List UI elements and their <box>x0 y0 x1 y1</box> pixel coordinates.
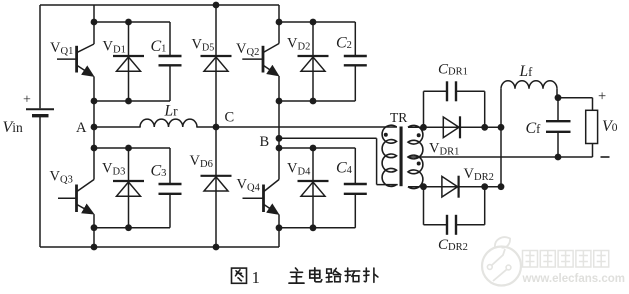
node middle leg top rail <box>213 2 220 9</box>
node cell3 top VD3 <box>125 145 132 152</box>
node cell1 top-left <box>91 19 98 26</box>
svg-text:A: A <box>76 120 87 136</box>
wire right leg bottom riser <box>278 228 280 247</box>
label VQ1 <box>50 40 73 57</box>
transformer TR core <box>400 127 403 187</box>
node cell2 top VD2 <box>310 19 317 26</box>
wire secondary bottom lead / VDR2 branch <box>408 186 501 188</box>
node B <box>276 135 283 142</box>
node cell4 bottom-left <box>276 224 283 231</box>
wire C2 riser top <box>354 22 356 56</box>
watermark logo <box>482 237 521 285</box>
label VQ2 <box>236 41 259 58</box>
wire VQ2 collector lead <box>278 22 280 44</box>
svg-text:Lf: Lf <box>519 63 534 80</box>
caption glyph 图 <box>232 268 247 283</box>
wire CDR1 top-left <box>424 90 448 92</box>
wire C1 riser bottom <box>169 65 171 101</box>
wire CDR1 right leg <box>484 91 486 127</box>
wire cell2 bottom <box>279 100 355 102</box>
wire Cf bottom lead <box>557 132 559 157</box>
wire left rail upper (Vin +) <box>39 5 41 108</box>
label TR <box>390 110 407 125</box>
wire CDR2 bottom-right <box>456 224 485 226</box>
wire VD2 column <box>312 22 314 101</box>
label VD4 <box>287 161 311 178</box>
label VD1 <box>103 39 126 56</box>
node A <box>91 124 98 131</box>
node cell2 top-left <box>276 19 283 26</box>
wire VD3 column <box>128 148 130 228</box>
wire left rail lower (Vin -) <box>39 117 41 248</box>
caption glyph 主 <box>289 268 304 283</box>
caption glyph 拓 <box>345 268 360 282</box>
label VD5 <box>192 37 215 54</box>
capacitor CDR1 <box>447 81 456 101</box>
watermark text www.elecfans.com <box>522 273 625 285</box>
wire Lf right leg <box>556 89 558 98</box>
wire VD4 column <box>312 148 314 228</box>
wire CDR2 bottom-left <box>424 224 448 226</box>
wire cell2 top <box>279 21 355 23</box>
label Lr <box>164 103 179 120</box>
wire Lf to V0 plus <box>557 97 593 99</box>
wire right leg mid (to node B) <box>278 101 280 148</box>
diode VD3 <box>113 181 144 196</box>
wire VQ3 collector lead <box>93 148 95 180</box>
label VQ3 <box>50 169 73 186</box>
wire cell1 bottom <box>94 100 170 102</box>
label VDR1 <box>429 141 459 158</box>
label B <box>260 134 270 150</box>
label + (battery) <box>23 93 31 108</box>
transistor Q2 (VQ2) <box>242 44 279 76</box>
transistor Q4 (VQ4) <box>243 180 280 214</box>
wire C1 riser top <box>169 22 171 56</box>
svg-text:Cf: Cf <box>526 120 542 137</box>
wire cell1 top <box>94 21 170 23</box>
capacitor C2 <box>344 56 367 65</box>
resistor V0 (load) <box>586 110 598 143</box>
polarity dot secondary upper <box>417 133 421 137</box>
capacitor CDR2 <box>447 215 456 235</box>
wire node B to primary (horizontal) <box>279 137 377 139</box>
caption glyph 路 <box>326 268 341 282</box>
polarity dot secondary lower <box>417 162 421 166</box>
node C <box>213 124 220 131</box>
label VDR2 <box>464 166 494 183</box>
node cell2 bottom-left <box>276 98 283 105</box>
wire C4 riser top <box>354 148 356 184</box>
wire middle leg <box>215 5 217 247</box>
battery Vin positive plate <box>26 108 54 110</box>
svg-text:Vin: Vin <box>3 119 24 136</box>
wire Lr to node C and primary <box>196 126 397 128</box>
svg-text:B: B <box>260 134 270 150</box>
wire node A to Lr <box>94 126 141 128</box>
wire cell4 top <box>279 147 355 149</box>
wire CDR1 left leg <box>423 91 425 127</box>
wire VD1 column <box>128 22 130 101</box>
wire CDR2 right leg <box>484 187 486 225</box>
polarity dot primary <box>384 133 388 137</box>
label A <box>76 120 87 136</box>
node cell4 bottom VD4 <box>310 224 317 231</box>
capacitor C4 <box>344 184 367 194</box>
wire VQ2 emitter lead <box>278 76 280 101</box>
label C4 <box>336 160 353 177</box>
label + (output) <box>598 88 606 104</box>
diode VDR2 <box>442 176 459 198</box>
node left leg bottom rail <box>91 244 98 251</box>
wire cell3 bottom <box>94 227 170 229</box>
wire secondary top lead / VDR1 branch <box>408 126 501 128</box>
transistor Q1 (VQ1) <box>57 44 94 76</box>
label CDR1 <box>438 62 468 78</box>
label C2 <box>336 35 352 52</box>
wire Cf top lead <box>557 98 559 122</box>
inductor Lr <box>140 119 197 127</box>
label C <box>225 110 235 126</box>
wire right leg top riser <box>278 5 280 22</box>
wire VQ4 collector lead <box>278 148 280 180</box>
transistor Q3 (VQ3) <box>58 180 94 214</box>
wire top rail <box>40 4 279 6</box>
label C3 <box>151 163 167 180</box>
label VD2 <box>287 36 310 53</box>
wire center tap / output return <box>408 156 593 158</box>
node secondary top <box>420 124 427 131</box>
node cell2 bottom VD2 <box>310 98 317 105</box>
wire C4 riser bottom <box>354 194 356 228</box>
wire left leg bottom riser <box>93 228 95 247</box>
label CDR2 <box>438 237 468 253</box>
label VD3 <box>102 161 125 178</box>
node VDR1 cathode / CDR1 <box>481 124 488 131</box>
caption text 1 <box>252 268 261 287</box>
diode VD2 <box>298 56 329 71</box>
node VDR1 line to Lf riser <box>498 124 505 131</box>
caption glyph 扑 <box>364 268 378 282</box>
diode VD6 <box>201 176 232 191</box>
node cell4 top VD4 <box>310 145 317 152</box>
wire C3 riser top <box>169 148 171 184</box>
node Lf output <box>555 94 562 101</box>
label Vin <box>3 119 24 136</box>
node VDR2 line to Lf riser <box>498 183 505 190</box>
caption glyph 电 <box>310 268 322 282</box>
wire VQ1 emitter lead <box>93 77 95 102</box>
wire left leg mid (to node A) <box>93 101 95 148</box>
wire C3 riser bottom <box>169 194 171 228</box>
wire VQ1 collector lead <box>93 22 95 44</box>
wire VQ4 emitter lead <box>278 215 280 228</box>
capacitor C3 <box>159 184 182 194</box>
watermark text 电子发烧友 <box>523 251 609 268</box>
svg-text:Lr: Lr <box>164 103 179 120</box>
diode VDR1 <box>443 116 460 138</box>
wire B wrap (vertical) <box>376 138 378 184</box>
node cell1 top VD1 <box>125 19 132 26</box>
node Cf bottom <box>555 154 562 161</box>
diode VD5 <box>201 56 232 71</box>
svg-text:www.elecfans.com: www.elecfans.com <box>522 273 625 285</box>
capacitor Cf <box>546 121 571 132</box>
svg-text:1: 1 <box>252 268 261 287</box>
wire primary bottom lead <box>377 184 398 186</box>
node cell3 bottom-left <box>91 224 98 231</box>
wire cell3 top <box>94 147 170 149</box>
wire V0 bottom lead <box>592 144 594 158</box>
inductor Lf <box>501 81 557 89</box>
node cell3 top-left <box>91 145 98 152</box>
wire cell4 bottom <box>279 227 355 229</box>
capacitor C1 <box>159 56 182 65</box>
wire VQ3 emitter lead <box>93 214 95 227</box>
node cell1 bottom-left <box>91 98 98 105</box>
transformer TR secondary winding <box>408 125 423 188</box>
battery Vin negative plate <box>32 114 49 117</box>
label VD6 <box>190 153 213 170</box>
wire bottom rail <box>40 246 279 248</box>
label Lf <box>519 63 534 80</box>
label - (output) <box>601 156 610 158</box>
wire CDR1 top-right <box>456 90 485 92</box>
node middle leg bottom rail <box>213 244 220 251</box>
wire left leg top riser <box>93 5 95 22</box>
transformer TR primary winding <box>382 125 396 186</box>
node cell1 bottom VD1 <box>125 98 132 105</box>
node cell4 top-left <box>276 145 283 152</box>
wire C2 riser bottom <box>354 65 356 101</box>
svg-text:+: + <box>598 88 606 104</box>
node VDR2 cathode / CDR2 <box>481 183 488 190</box>
label Cf <box>526 120 542 137</box>
svg-text:C: C <box>225 110 235 126</box>
diode VD1 <box>113 56 144 71</box>
diode VD4 <box>298 181 329 196</box>
label V0 <box>602 118 618 135</box>
node secondary bottom <box>420 183 427 190</box>
label C1 <box>151 38 167 55</box>
svg-text:+: + <box>23 93 31 108</box>
wire CDR2 left leg <box>423 187 425 225</box>
svg-text:TR: TR <box>390 110 407 125</box>
wire V0 top lead <box>592 98 594 111</box>
wire rectifier output riser (to Lf) <box>500 89 502 187</box>
node cell3 bottom VD3 <box>125 224 132 231</box>
label VQ4 <box>237 177 261 194</box>
